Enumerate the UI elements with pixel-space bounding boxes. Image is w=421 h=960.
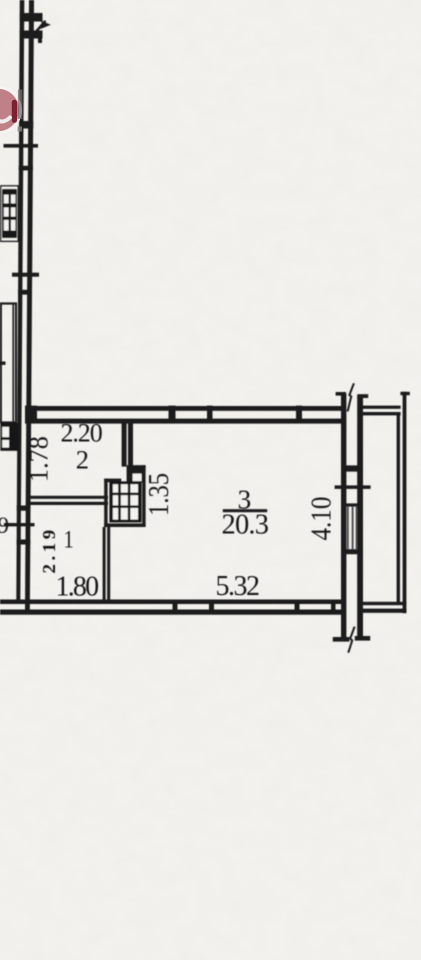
svg-text:1.35: 1.35 — [143, 473, 174, 516]
logo squiggle — [0, 114, 10, 122]
shower shoulder edge — [104, 479, 121, 483]
svg-text:1.78: 1.78 — [23, 436, 53, 482]
shower right edge — [142, 465, 145, 527]
top wall separator 1 — [169, 406, 176, 423]
right wall rung 2 — [341, 503, 363, 506]
balcony right inner line — [397, 412, 400, 602]
vent box B fill — [0, 423, 18, 451]
top wall left junction — [25, 406, 37, 423]
wall break bar top 1 — [20, 13, 43, 22]
right wall top cap b — [357, 394, 368, 398]
divider wall room1-hall line b — [107, 527, 110, 600]
wall rung B — [19, 166, 33, 171]
wall break bar top 2 — [20, 31, 43, 39]
logo circle — [0, 89, 19, 131]
bottom wall lower line — [0, 610, 346, 615]
right wall window hatch — [348, 507, 357, 550]
wall rung D — [17, 506, 31, 511]
wall break arrow tail — [35, 20, 47, 33]
shower left edge — [104, 479, 107, 527]
svg-text:2.19: 2.19 — [39, 526, 58, 573]
shower bottom edge — [104, 523, 145, 527]
svg-text:4.10: 4.10 — [305, 497, 337, 541]
svg-text:2.20: 2.20 — [61, 419, 103, 448]
balcony bottom line b — [361, 609, 406, 613]
divider wall rooms 1-2 line a — [26, 496, 108, 499]
vent box A cells — [4, 195, 16, 231]
svg-text:1.80: 1.80 — [56, 572, 99, 603]
balcony bottom line a — [361, 602, 406, 605]
wall left vertical line B — [25, 0, 34, 613]
shower grid cells — [113, 484, 138, 519]
shower grid block — [109, 481, 141, 522]
wall break stub — [38, 39, 42, 44]
svg-text:1: 1 — [64, 526, 74, 553]
right wall line b — [357, 395, 363, 640]
shower wall line a — [122, 423, 127, 467]
top wall separator 3 — [296, 406, 302, 423]
window left inner line — [12, 305, 14, 422]
vent box A fill — [2, 189, 17, 238]
svg-text:20.3: 20.3 — [222, 510, 269, 541]
right wall bottom cap a — [333, 637, 350, 642]
logo wall line showing through — [18, 90, 22, 120]
wall break arrow — [41, 21, 51, 29]
balcony right cap — [400, 392, 409, 395]
vent box B cells — [2, 427, 9, 448]
right wall break top — [348, 383, 354, 411]
shower top-right edge — [127, 465, 146, 469]
wall rung A — [19, 121, 33, 129]
bottom wall separator 2 — [209, 600, 214, 615]
window left tick — [0, 362, 6, 365]
right wall rung 3 — [341, 549, 363, 554]
wall rung C — [18, 290, 32, 295]
bottom wall separator 4 — [331, 600, 336, 615]
logo halo — [0, 86, 22, 134]
balcony top line a — [363, 406, 401, 409]
svg-text:5.32: 5.32 — [216, 571, 260, 602]
right wall break bottom — [348, 627, 354, 653]
window left outline — [1, 304, 16, 423]
right wall tick — [335, 485, 371, 489]
svg-text:9: 9 — [0, 513, 9, 538]
divider wall rooms 1-2 line b — [26, 502, 108, 505]
right wall line a — [341, 394, 346, 642]
top wall separator 2 — [207, 406, 213, 423]
logo dark crescent — [12, 100, 17, 123]
dimension tick 1 — [4, 144, 39, 148]
wall rung E — [17, 540, 31, 545]
shower wall line b — [128, 423, 133, 467]
balcony top line b — [363, 412, 401, 415]
balcony right outer line — [403, 392, 407, 613]
top wall lower line — [25, 419, 346, 424]
fraction line room 3 — [223, 509, 267, 512]
bottom wall separator 1 — [173, 600, 178, 615]
shower corner block — [127, 468, 143, 483]
bottom wall separator 3 — [295, 600, 300, 615]
bottom wall upper line — [0, 600, 346, 605]
svg-text:2: 2 — [76, 445, 89, 475]
wall left vertical line A — [16, 0, 24, 602]
shower corner notch — [133, 474, 142, 482]
dimension tick 3 — [4, 523, 35, 526]
right wall bottom cap b — [355, 636, 370, 641]
top wall upper line — [25, 406, 346, 411]
dimension tick 2 — [12, 273, 39, 277]
right wall top cap a — [336, 392, 346, 396]
vent box A outline — [1, 186, 19, 242]
divider wall room1-hall line a — [103, 527, 106, 600]
right wall rung 1 — [341, 465, 363, 471]
